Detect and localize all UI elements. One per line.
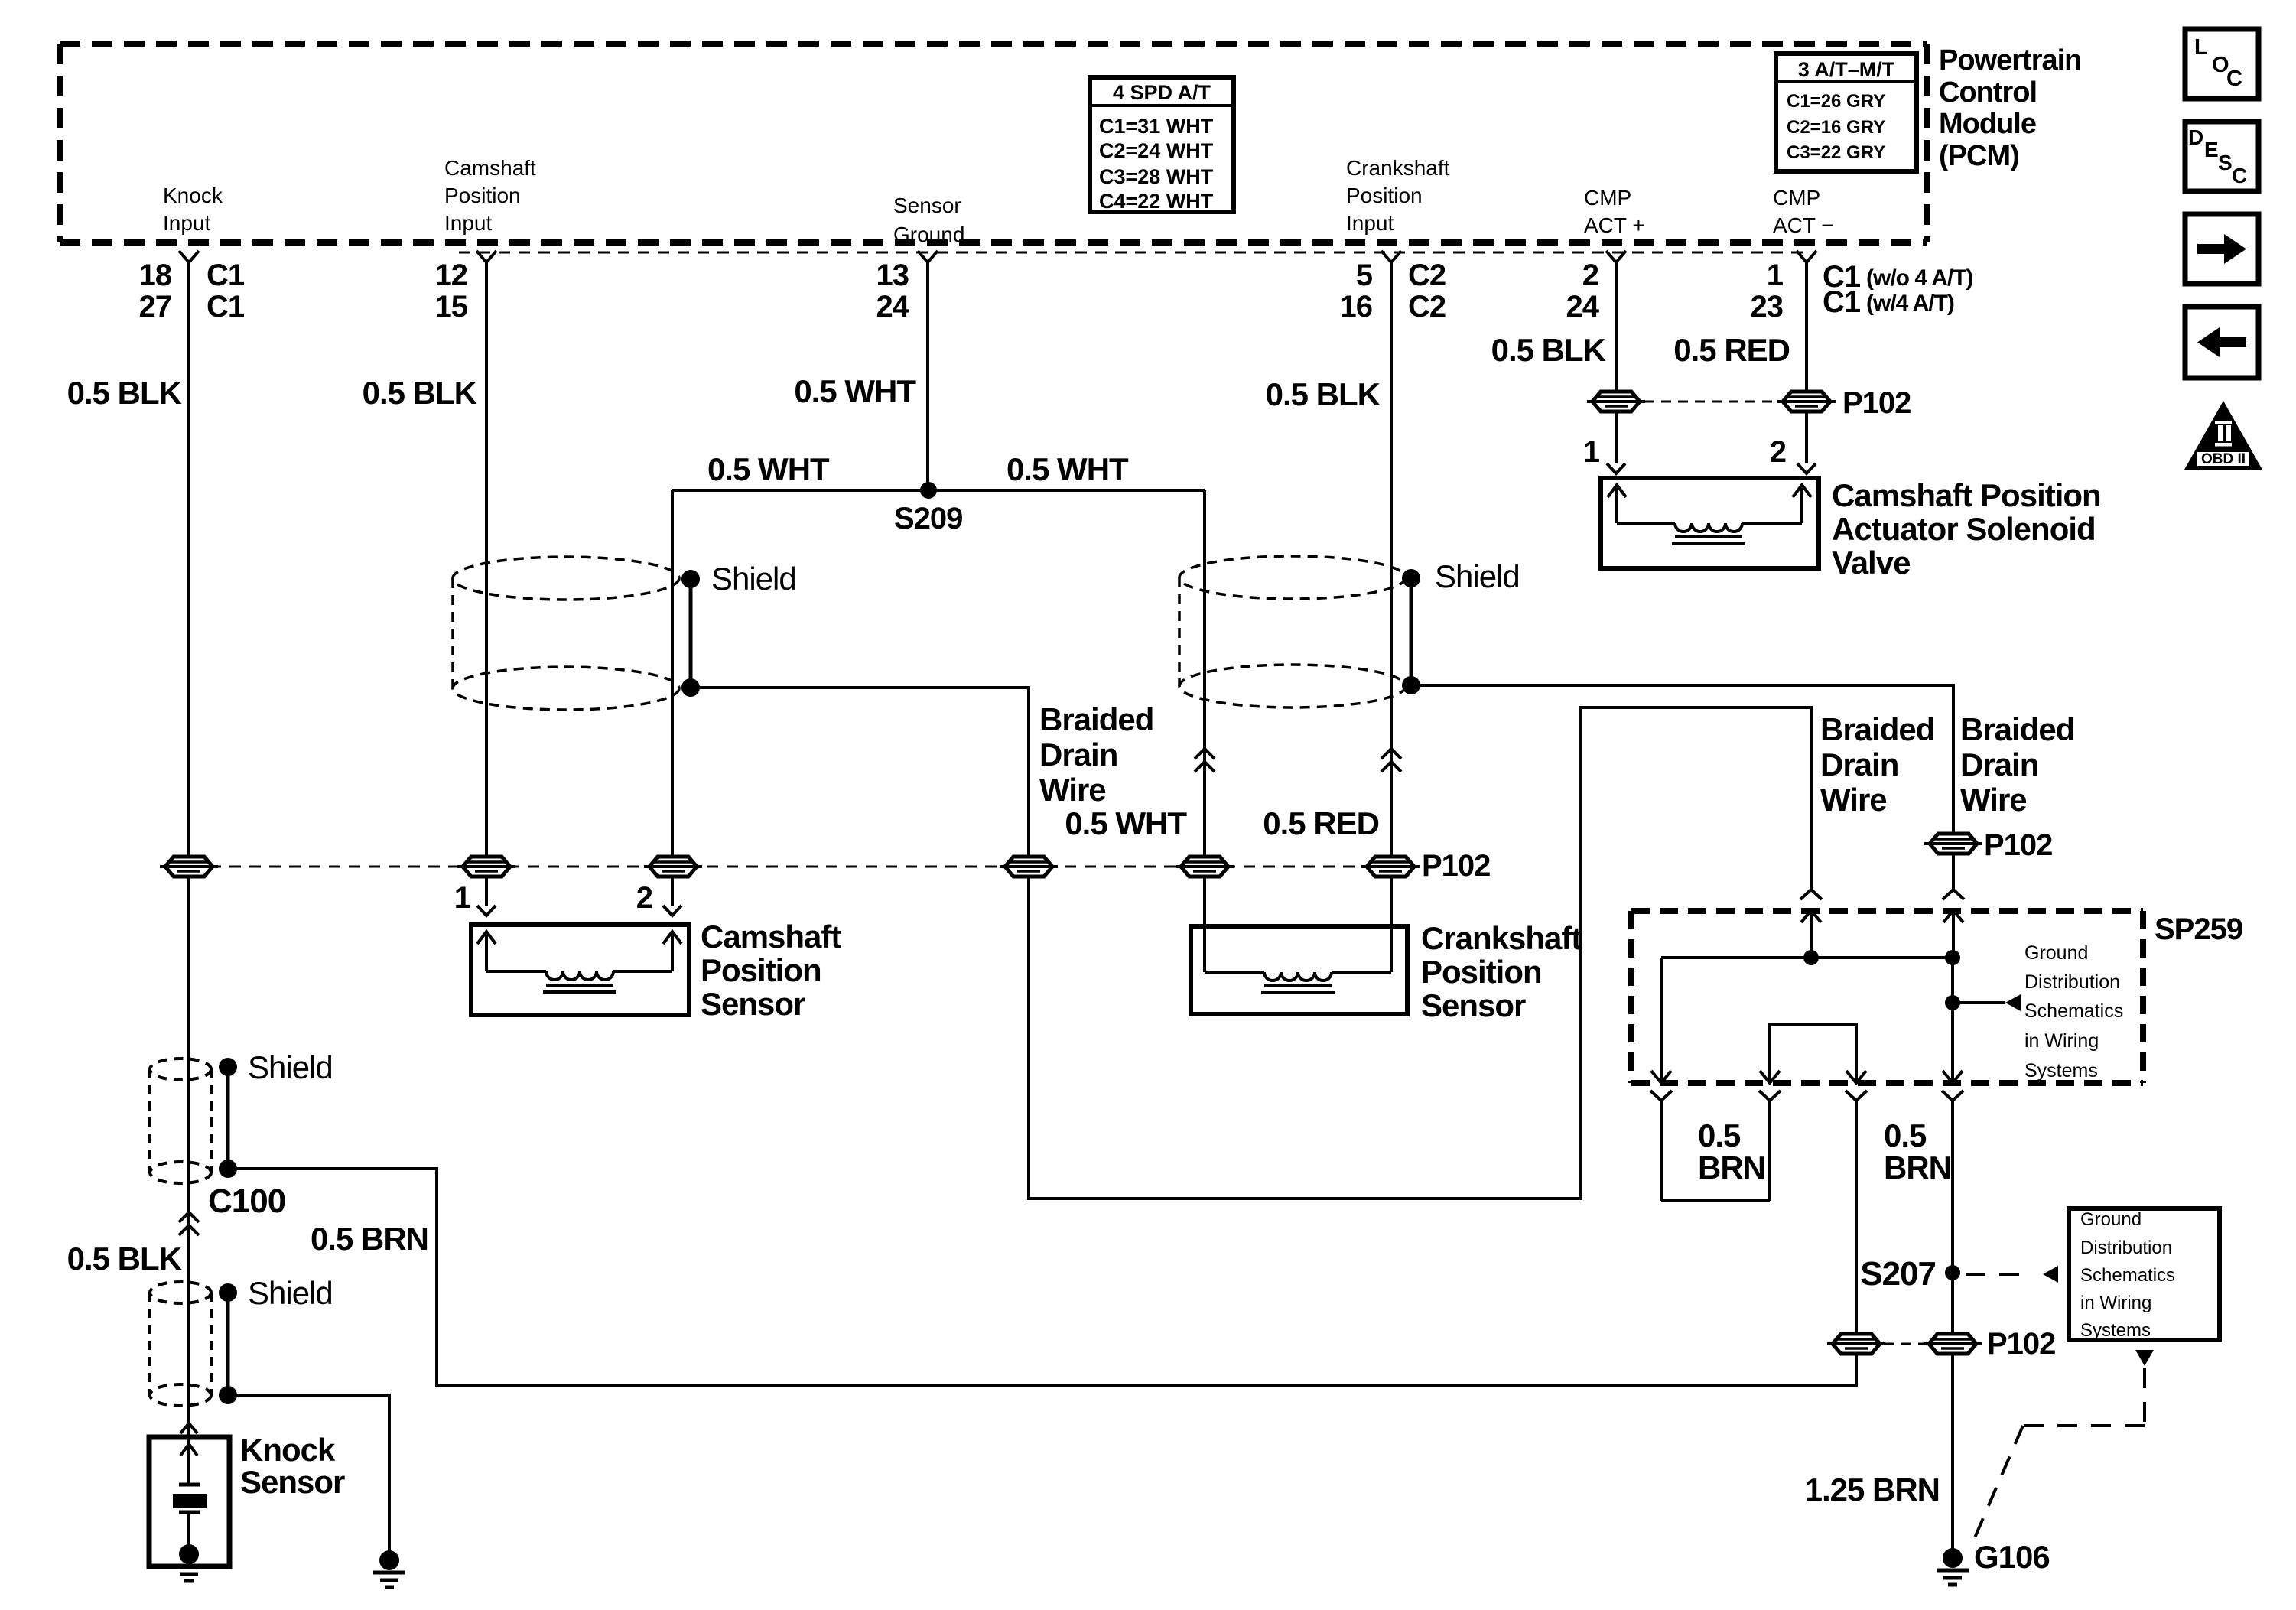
wire braided drain (camshaft) down segment bbox=[691, 688, 1811, 1199]
svg-text:4 SPD A/T: 4 SPD A/T bbox=[1113, 81, 1211, 104]
crank sensor internal pickup coil bbox=[1205, 971, 1264, 974]
svg-text:C: C bbox=[2232, 164, 2247, 187]
Ground Distribution Schematics note box bbox=[2069, 1208, 2220, 1340]
svg-text:0.5 RED: 0.5 RED bbox=[1673, 332, 1790, 368]
svg-text:Schematics: Schematics bbox=[2024, 1000, 2123, 1022]
svg-text:ACT −: ACT − bbox=[1773, 213, 1834, 237]
svg-text:Sensor: Sensor bbox=[701, 986, 805, 1022]
wire leg1 below SP259 bbox=[1660, 1101, 1663, 1201]
svg-text:Control: Control bbox=[1939, 76, 2037, 109]
ground (knock shield) bbox=[379, 1550, 399, 1570]
wire knock 0.5 BLK vertical bbox=[187, 262, 190, 1485]
svg-text:C: C bbox=[2226, 67, 2242, 91]
connector cam pin 2 bbox=[649, 857, 697, 877]
wire CMP ACT + vertical bbox=[1615, 262, 1618, 463]
svg-text:Powertrain: Powertrain bbox=[1939, 44, 2081, 76]
svg-text:23: 23 bbox=[1751, 290, 1784, 324]
DESC icon box bbox=[2185, 122, 2259, 191]
connector cam pin 1 bbox=[463, 857, 510, 877]
svg-text:Shield: Shield bbox=[711, 561, 796, 597]
svg-text:C1=31 WHT: C1=31 WHT bbox=[1099, 115, 1214, 138]
inline connector chevrons crank 0.5 RED bbox=[1381, 749, 1401, 759]
svg-text:C100: C100 bbox=[208, 1182, 285, 1220]
svg-text:18: 18 bbox=[139, 259, 172, 292]
svg-text:27: 27 bbox=[139, 290, 172, 324]
PCM module outline (dashed box), Powertrain Control Module bbox=[60, 41, 1927, 47]
svg-text:0.5 BLK: 0.5 BLK bbox=[1491, 332, 1606, 368]
svg-text:Wire: Wire bbox=[1039, 772, 1106, 808]
svg-text:Position: Position bbox=[444, 184, 521, 207]
SP259 splice pack dashed box bbox=[1631, 908, 2143, 914]
svg-text:Knock: Knock bbox=[163, 184, 223, 207]
chevron below SP259 leg 3 bbox=[1846, 1091, 1867, 1101]
wire leg4 below SP259 to G106 bbox=[1951, 1101, 1954, 1558]
svg-text:C3=28 WHT: C3=28 WHT bbox=[1099, 165, 1214, 188]
wire camshaft input 0.5 BLK vertical bbox=[485, 262, 488, 906]
svg-text:P102: P102 bbox=[1987, 1327, 2055, 1361]
svg-text:C3=22 GRY: C3=22 GRY bbox=[1787, 142, 1885, 163]
svg-text:0.5 BLK: 0.5 BLK bbox=[1266, 376, 1381, 412]
chevron on cam drain above SP259 bbox=[1800, 890, 1822, 899]
svg-text:Input: Input bbox=[163, 211, 210, 235]
svg-text:3 A/T–M/T: 3 A/T–M/T bbox=[1798, 58, 1895, 81]
chevron on crank drain above SP259 bbox=[1943, 890, 1964, 899]
svg-text:24: 24 bbox=[1566, 290, 1600, 324]
junction dot crank drain to bus bbox=[1945, 950, 1960, 965]
svg-text:0.5 WHT: 0.5 WHT bbox=[1065, 805, 1187, 841]
SP259 internal jumper loop bbox=[1770, 1024, 1856, 1081]
crankshaft position sensor box bbox=[1191, 926, 1407, 1014]
wire sensor ground 0.5 WHT vertical bbox=[926, 262, 929, 490]
svg-text:Wire: Wire bbox=[1820, 782, 1887, 818]
svg-text:E: E bbox=[2204, 138, 2219, 161]
svg-text:ACT +: ACT + bbox=[1584, 213, 1645, 237]
connector P102 (knock BRN) bbox=[1833, 1334, 1880, 1354]
svg-text:in Wiring: in Wiring bbox=[2024, 1030, 2099, 1052]
chevron below SP259 leg 2 bbox=[1759, 1091, 1781, 1101]
wire leg3 below SP259 to P102 bbox=[1855, 1101, 1858, 1332]
arrow out of SP259 leg 4 bbox=[1943, 1071, 1963, 1083]
wire leg2 below SP259 bbox=[1768, 1101, 1771, 1201]
svg-text:2: 2 bbox=[1770, 435, 1786, 469]
svg-text:P102: P102 bbox=[1984, 828, 2052, 862]
knock input pin arrow bbox=[179, 251, 199, 262]
svg-text:BRN: BRN bbox=[1698, 1150, 1765, 1186]
camshaft cable shield (dashed cylinder) bbox=[453, 557, 679, 600]
svg-text:15: 15 bbox=[435, 290, 468, 324]
svg-text:(PCM): (PCM) bbox=[1939, 140, 2019, 172]
3 A/T-M/T connector table box bbox=[1776, 54, 1917, 171]
arrow out of SP259 leg 1 bbox=[1651, 1071, 1671, 1083]
svg-text:1: 1 bbox=[1767, 259, 1784, 292]
svg-text:Position: Position bbox=[1346, 184, 1423, 207]
svg-text:0.5 BLK: 0.5 BLK bbox=[67, 1241, 182, 1277]
ref triangle below note box bbox=[2135, 1350, 2154, 1366]
wire braided drain (crankshaft) to SP259 bbox=[1411, 685, 1953, 890]
arrow into SP259 (cam drain) bbox=[1801, 910, 1821, 922]
svg-text:C4=22 WHT: C4=22 WHT bbox=[1099, 190, 1214, 213]
knock lower shield dots and link bbox=[219, 1283, 237, 1302]
svg-text:(w/4 A/T): (w/4 A/T) bbox=[1866, 291, 1954, 316]
inline chevron above knock sensor bbox=[180, 1423, 197, 1433]
svg-text:Ground: Ground bbox=[893, 223, 964, 246]
wire bus left leg down bbox=[1660, 958, 1663, 1081]
svg-text:Braided: Braided bbox=[1820, 711, 1934, 747]
arrow out of SP259 leg 3 bbox=[1846, 1071, 1866, 1083]
svg-text:P102: P102 bbox=[1842, 386, 1911, 420]
svg-text:G106: G106 bbox=[1974, 1539, 2050, 1575]
svg-text:0.5 BRN: 0.5 BRN bbox=[311, 1221, 428, 1257]
connector P102 on crank drain bbox=[1930, 834, 1977, 854]
SP259 internal ground bus bbox=[1661, 956, 1953, 959]
svg-text:Schematics: Schematics bbox=[2080, 1265, 2175, 1286]
ground schematics ref arrow (inside SP259) bbox=[1953, 1001, 2005, 1004]
ground (knock sensor) bbox=[179, 1544, 199, 1564]
svg-text:0.5: 0.5 bbox=[1698, 1117, 1741, 1153]
svg-text:Actuator Solenoid: Actuator Solenoid bbox=[1832, 511, 2096, 547]
svg-text:5: 5 bbox=[1356, 259, 1373, 292]
svg-text:S209: S209 bbox=[894, 502, 962, 535]
svg-text:L: L bbox=[2194, 35, 2208, 60]
crankshaft cable shield (dashed cylinder) bbox=[1179, 556, 1406, 599]
svg-text:24: 24 bbox=[876, 290, 910, 324]
knock sensor box bbox=[149, 1437, 229, 1566]
svg-text:Drain: Drain bbox=[1039, 737, 1117, 772]
svg-text:Sensor: Sensor bbox=[240, 1464, 345, 1500]
svg-text:Shield: Shield bbox=[248, 1049, 333, 1085]
svg-text:2: 2 bbox=[636, 881, 652, 915]
wire crank drain through box down bbox=[1951, 958, 1954, 1081]
svg-text:Camshaft: Camshaft bbox=[444, 156, 536, 180]
CMP ACT - pin arrow bbox=[1797, 251, 1816, 262]
connector on braided drain bbox=[1005, 857, 1052, 877]
svg-text:Braided: Braided bbox=[1960, 711, 2074, 747]
svg-text:S: S bbox=[2218, 151, 2233, 174]
svg-text:0.5 RED: 0.5 RED bbox=[1263, 805, 1379, 841]
svg-text:C1: C1 bbox=[207, 259, 245, 292]
junction dot cam drain to bus bbox=[1803, 950, 1819, 965]
svg-text:Ground: Ground bbox=[2080, 1209, 2142, 1230]
wire cam sensor pin2 vertical bbox=[671, 490, 674, 906]
svg-text:Braided: Braided bbox=[1039, 701, 1153, 737]
thin dashed connector face line below PCM bbox=[459, 252, 1811, 254]
svg-text:Valve: Valve bbox=[1832, 545, 1910, 581]
chevron below SP259 leg 4 bbox=[1942, 1091, 1963, 1101]
svg-text:P102: P102 bbox=[1422, 849, 1490, 883]
svg-text:(w/o 4 A/T): (w/o 4 A/T) bbox=[1866, 265, 1973, 291]
ground G106 bbox=[1943, 1548, 1963, 1568]
knock upper shield (dashed cylinder) bbox=[150, 1059, 211, 1080]
wire knock shield to ground bbox=[228, 1395, 389, 1560]
svg-text:CMP: CMP bbox=[1773, 186, 1820, 210]
dashed mate line between bottom P102 pair bbox=[1885, 1343, 1926, 1345]
svg-text:C2=16 GRY: C2=16 GRY bbox=[1787, 117, 1885, 138]
svg-text:C2=24 WHT: C2=24 WHT bbox=[1099, 139, 1214, 162]
camshaft position actuator solenoid valve box bbox=[1601, 478, 1819, 568]
chevron below SP259 leg 1 bbox=[1650, 1091, 1672, 1101]
camshaft position sensor box bbox=[471, 925, 689, 1015]
svg-text:CMP: CMP bbox=[1584, 186, 1631, 210]
knock upper shield dots and link bbox=[219, 1058, 237, 1076]
cam sensor pin 2 chevron bbox=[663, 906, 681, 916]
svg-text:Sensor: Sensor bbox=[893, 194, 961, 217]
svg-text:C1: C1 bbox=[1823, 285, 1861, 319]
junction dot ground ref arrow bbox=[1945, 995, 1960, 1010]
svg-text:0.5 BLK: 0.5 BLK bbox=[67, 375, 182, 411]
knock lower shield (dashed cylinder) bbox=[150, 1282, 211, 1303]
svg-text:D: D bbox=[2188, 125, 2203, 149]
S207 ground schematics dashed ref bbox=[1966, 1273, 2028, 1276]
connector P102 (S207 leg) bbox=[1929, 1334, 1976, 1354]
svg-text:Crankshaft: Crankshaft bbox=[1421, 920, 1582, 956]
svg-text:0.5 WHT: 0.5 WHT bbox=[707, 451, 830, 487]
svg-text:0.5 WHT: 0.5 WHT bbox=[794, 373, 916, 409]
LOC icon box bbox=[2185, 29, 2259, 99]
camshaft shield node dots and link bbox=[681, 570, 700, 588]
inline connector chevrons crank 0.5 WHT bbox=[1195, 749, 1215, 759]
wire crank 0.5 WHT vertical bbox=[1203, 490, 1206, 972]
actuator pin 1 chevron bbox=[1607, 463, 1625, 473]
svg-text:Shield: Shield bbox=[1435, 558, 1520, 594]
svg-text:1: 1 bbox=[454, 881, 471, 915]
svg-text:C2: C2 bbox=[1408, 290, 1446, 324]
svg-text:Knock: Knock bbox=[240, 1432, 336, 1468]
CMP ACT + pin arrow bbox=[1606, 251, 1626, 262]
crankshaft shield node dots and link bbox=[1402, 569, 1420, 587]
svg-text:Input: Input bbox=[444, 211, 492, 235]
camshaft position input pin arrow bbox=[476, 251, 496, 262]
svg-text:1.25 BRN: 1.25 BRN bbox=[1805, 1472, 1940, 1508]
svg-text:Camshaft: Camshaft bbox=[701, 919, 841, 955]
svg-text:C2: C2 bbox=[1408, 259, 1446, 292]
crankshaft position input pin arrow bbox=[1381, 251, 1401, 262]
knock sensor internal piezo element bbox=[180, 1444, 197, 1456]
svg-text:0.5 BLK: 0.5 BLK bbox=[363, 375, 477, 411]
svg-text:Shield: Shield bbox=[248, 1275, 333, 1311]
svg-text:12: 12 bbox=[435, 259, 468, 292]
connector crank 0.5 RED P102 bbox=[1367, 857, 1414, 877]
svg-text:2: 2 bbox=[1582, 259, 1598, 292]
connector P102 on CMP ACT - wire bbox=[1783, 392, 1830, 411]
svg-text:16: 16 bbox=[1340, 290, 1373, 324]
node S207 junction bbox=[1945, 1265, 1960, 1280]
wire S209 splice bus 0.5 WHT bbox=[672, 489, 1205, 492]
svg-text:in Wiring: in Wiring bbox=[2080, 1293, 2151, 1313]
arrow into SP259 (crank drain) bbox=[1943, 910, 1963, 922]
wire long 0.5 BRN horizontal bbox=[228, 1169, 1856, 1385]
svg-text:0.5 WHT: 0.5 WHT bbox=[1007, 451, 1129, 487]
svg-text:Input: Input bbox=[1346, 211, 1394, 235]
forward arrow icon box bbox=[2185, 214, 2259, 284]
svg-text:Distribution: Distribution bbox=[2080, 1238, 2172, 1258]
svg-text:Position: Position bbox=[701, 952, 821, 988]
svg-text:Ground: Ground bbox=[2024, 942, 2088, 964]
svg-text:Drain: Drain bbox=[1960, 746, 2038, 782]
svg-text:SP259: SP259 bbox=[2155, 912, 2242, 946]
svg-text:OBD II: OBD II bbox=[2201, 451, 2246, 467]
svg-text:Wire: Wire bbox=[1960, 782, 2027, 818]
cam sensor pin 1 chevron bbox=[477, 906, 496, 916]
svg-text:0.5: 0.5 bbox=[1884, 1117, 1927, 1153]
wire CMP ACT - vertical bbox=[1805, 262, 1808, 463]
dashed ref path from note box to G106 bbox=[2143, 1368, 2146, 1424]
connector on knock wire bbox=[165, 857, 213, 877]
svg-text:BRN: BRN bbox=[1884, 1150, 1951, 1186]
connector P102 on CMP ACT + wire bbox=[1592, 392, 1640, 411]
svg-text:Systems: Systems bbox=[2080, 1320, 2151, 1341]
connector crank 0.5 WHT bbox=[1181, 857, 1228, 877]
svg-text:C1=26 GRY: C1=26 GRY bbox=[1787, 91, 1885, 112]
svg-text:Distribution: Distribution bbox=[2024, 971, 2120, 993]
svg-text:S207: S207 bbox=[1860, 1255, 1936, 1293]
wire crankshaft input vertical bbox=[1390, 262, 1393, 972]
svg-text:Sensor: Sensor bbox=[1421, 987, 1526, 1023]
sensor ground pin arrow bbox=[918, 251, 938, 262]
arrow out of SP259 leg 2 bbox=[1760, 1071, 1780, 1083]
svg-text:1: 1 bbox=[1583, 435, 1600, 469]
svg-text:Systems: Systems bbox=[2024, 1060, 2098, 1081]
node S209 junction bbox=[920, 482, 937, 499]
back arrow icon box bbox=[2185, 307, 2259, 378]
U jumper between leg1 and leg2 bbox=[1661, 1199, 1770, 1202]
OBD II triangle icon bbox=[2184, 401, 2262, 470]
svg-text:Module: Module bbox=[1939, 108, 2036, 140]
svg-text:Position: Position bbox=[1421, 954, 1542, 990]
svg-text:13: 13 bbox=[876, 259, 909, 292]
dashed harness line through P102 row bbox=[190, 866, 1390, 868]
svg-text:Camshaft Position: Camshaft Position bbox=[1832, 477, 2101, 513]
actuator solenoid internal coil bbox=[1615, 488, 1618, 523]
svg-text:Crankshaft: Crankshaft bbox=[1346, 156, 1450, 180]
svg-text:C1: C1 bbox=[207, 290, 245, 324]
svg-text:Drain: Drain bbox=[1820, 746, 1898, 782]
inline connector C100 chevrons bbox=[179, 1212, 199, 1222]
actuator pin 2 chevron bbox=[1797, 463, 1816, 473]
dashed mate line between CMP P102 connectors bbox=[1644, 401, 1776, 403]
cam sensor internal pickup coil bbox=[485, 935, 488, 971]
4 SPD A/T connector table box bbox=[1090, 77, 1234, 212]
